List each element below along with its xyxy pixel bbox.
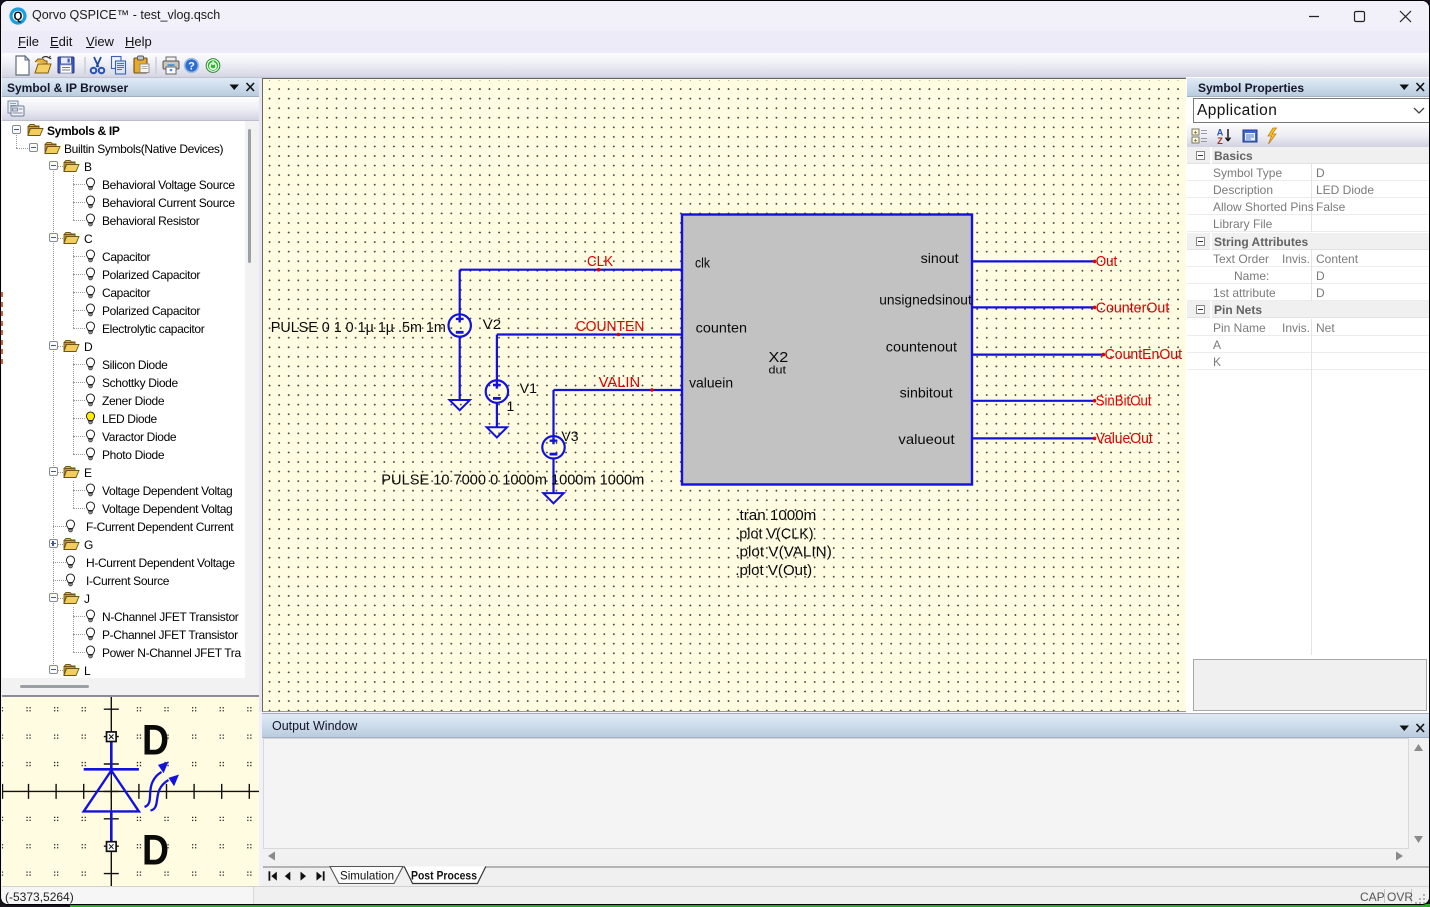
svg-text:COUNTEN: COUNTEN: [576, 319, 645, 335]
svg-text:countenout: countenout: [886, 338, 957, 354]
svg-text:.plot V(VALIN): .plot V(VALIN): [735, 545, 832, 561]
svg-text:V1: V1: [520, 380, 538, 396]
svg-text:sinbitout: sinbitout: [900, 385, 953, 401]
svg-text:CounterOut: CounterOut: [1096, 301, 1170, 317]
svg-text:dut: dut: [769, 365, 787, 377]
svg-text:D: D: [142, 828, 169, 875]
svg-text:D: D: [142, 718, 169, 765]
svg-text:V2: V2: [483, 316, 502, 332]
svg-text:.plot V(Out): .plot V(Out): [735, 563, 812, 579]
svg-text:Simulation: Simulation: [340, 869, 394, 883]
svg-text:1: 1: [507, 398, 515, 414]
svg-text:.tran 1000m: .tran 1000m: [735, 507, 816, 524]
svg-text:CLK: CLK: [587, 254, 613, 270]
svg-text:+: +: [1194, 129, 1198, 136]
svg-text:Out: Out: [1096, 254, 1118, 270]
svg-text:valuein: valuein: [689, 375, 733, 391]
svg-text:PULSE 10 7000 0 1000m 1000m 10: PULSE 10 7000 0 1000m 1000m 1000m: [381, 472, 644, 489]
svg-text:counten: counten: [696, 320, 747, 336]
svg-text:Z: Z: [1217, 136, 1223, 145]
svg-text:CountEnOut: CountEnOut: [1105, 347, 1182, 363]
svg-text:?: ?: [188, 61, 195, 73]
svg-text:PULSE 0 1 0 1µ 1µ .5m 1m: PULSE 0 1 0 1µ 1µ .5m 1m: [271, 319, 446, 336]
svg-text:X2: X2: [769, 349, 789, 366]
svg-text:clk: clk: [695, 255, 711, 271]
svg-text:unsignedsinout: unsignedsinout: [879, 292, 972, 308]
svg-text:SinBitOut: SinBitOut: [1096, 394, 1152, 410]
svg-text:Post Process: Post Process: [411, 869, 477, 883]
svg-text:valueout: valueout: [898, 431, 954, 447]
svg-text:.plot V(CLK): .plot V(CLK): [735, 526, 813, 542]
svg-text:sinout: sinout: [921, 250, 959, 266]
svg-text:+: +: [1194, 137, 1198, 144]
svg-text:V3: V3: [561, 428, 578, 444]
svg-text:VALIN: VALIN: [599, 375, 641, 391]
svg-text:Q: Q: [14, 11, 23, 23]
svg-text:ValueOut: ValueOut: [1096, 431, 1153, 447]
